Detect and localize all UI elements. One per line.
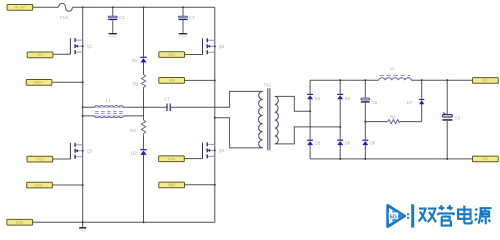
svg-text:C1: C1 (119, 15, 125, 20)
svg-text:R2: R2 (130, 128, 136, 133)
svg-text:VO-: VO- (482, 157, 489, 161)
svg-text:D2: D2 (131, 150, 137, 155)
svg-text:D1: D1 (132, 58, 138, 63)
svg-text:Q1: Q1 (87, 44, 93, 49)
svg-text:5G: 5G (390, 214, 397, 220)
svg-text:R3: R3 (390, 115, 396, 120)
svg-text:SW: SW (169, 79, 175, 83)
svg-text:Q3: Q3 (87, 148, 93, 153)
svg-text:D5: D5 (315, 141, 321, 146)
svg-text:D4: D4 (345, 96, 351, 101)
svg-text:C6: C6 (372, 100, 378, 105)
svg-text:AC-IN: AC-IN (15, 6, 25, 10)
svg-text:L1: L1 (106, 97, 111, 102)
svg-text:FU1: FU1 (60, 15, 69, 20)
svg-text:PGND: PGND (79, 229, 87, 233)
svg-text:L2: L2 (390, 66, 395, 71)
svg-text:D8: D8 (370, 141, 376, 146)
svg-text:C7: C7 (164, 97, 170, 102)
svg-text:PGND: PGND (109, 34, 117, 38)
svg-text:R1: R1 (133, 82, 139, 87)
svg-text:TX1: TX1 (263, 82, 271, 87)
svg-text:C3: C3 (455, 116, 461, 121)
svg-text:VG1: VG1 (36, 53, 43, 57)
svg-text:C2: C2 (189, 15, 195, 20)
svg-text:BUS-: BUS- (35, 183, 44, 187)
svg-text:VG2: VG2 (168, 53, 175, 57)
svg-text:GND: GND (16, 221, 24, 225)
svg-text:Q2: Q2 (219, 44, 225, 49)
svg-text:VG3: VG3 (36, 157, 43, 161)
svg-text:Q4: Q4 (219, 148, 225, 153)
svg-text:BUS+: BUS+ (34, 81, 43, 85)
svg-text:D6: D6 (345, 141, 351, 146)
svg-text:D7: D7 (407, 100, 413, 105)
svg-text:D3: D3 (315, 96, 321, 101)
svg-text:VG4: VG4 (168, 157, 175, 161)
svg-text:PGND: PGND (179, 34, 187, 38)
svg-text:VO+: VO+ (482, 79, 489, 83)
svg-text:SW2: SW2 (168, 183, 176, 187)
